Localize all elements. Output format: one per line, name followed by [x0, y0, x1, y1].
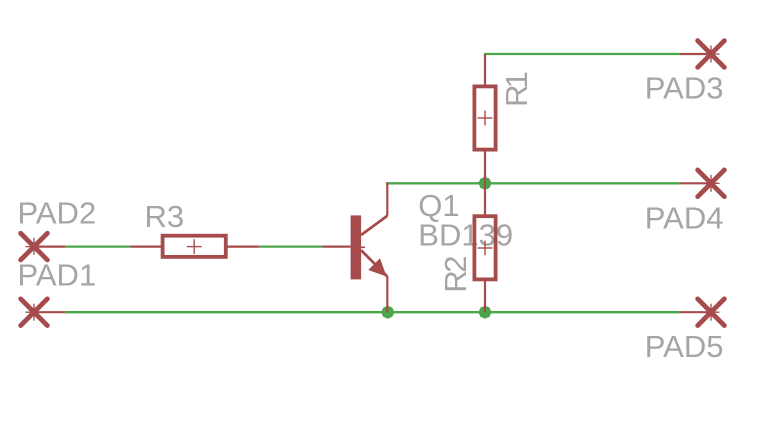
svg-text:BD139: BD139 [418, 218, 513, 253]
svg-text:PAD4: PAD4 [645, 200, 724, 235]
svg-text:R3: R3 [145, 199, 185, 234]
svg-text:R1: R1 [499, 73, 534, 107]
svg-text:R2: R2 [438, 257, 473, 293]
svg-text:PAD2: PAD2 [18, 196, 97, 231]
svg-text:PAD1: PAD1 [18, 258, 97, 293]
svg-text:PAD3: PAD3 [645, 71, 724, 106]
svg-text:PAD5: PAD5 [645, 329, 724, 364]
